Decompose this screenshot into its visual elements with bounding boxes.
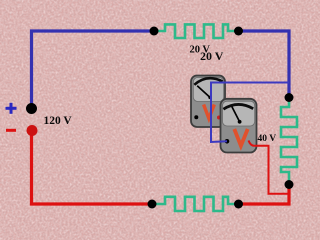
resistor R2 (right, vertical) — [281, 98, 297, 185]
wire: node D down to bottom-right corner, left to node E — [239, 185, 290, 205]
node B — [234, 27, 243, 36]
node D — [285, 180, 294, 189]
wire: node B to top-right corner down to node C — [239, 31, 290, 98]
svg-text:20 V: 20 V — [200, 49, 224, 63]
resistor R3 (bottom) — [152, 197, 239, 211]
voltmeter U1 (back meter) — [191, 76, 225, 128]
svg-text:40 V: 40 V — [258, 134, 277, 144]
node F — [148, 200, 157, 209]
resistor R1 (top) — [154, 24, 239, 38]
wire: node F to bottom-left corner up to battery - terminal — [32, 132, 153, 204]
plus sign — [6, 103, 17, 114]
voltmeter U2 (front meter) — [221, 99, 257, 153]
node A — [150, 27, 159, 36]
battery negative terminal — [27, 125, 38, 136]
minus sign — [6, 129, 16, 132]
wire: voltmeter U2 lead (thin red) from right terminal to node D — [249, 141, 289, 194]
node C — [285, 93, 294, 102]
wire: battery + terminal up to top-left corner, across to node A — [32, 31, 155, 106]
wire: voltmeter U2 lead (thin blue) from node C side across to U2 left terminal — [211, 83, 289, 143]
svg-text:120 V: 120 V — [44, 115, 73, 127]
battery positive terminal — [26, 103, 37, 114]
node E — [234, 200, 243, 209]
